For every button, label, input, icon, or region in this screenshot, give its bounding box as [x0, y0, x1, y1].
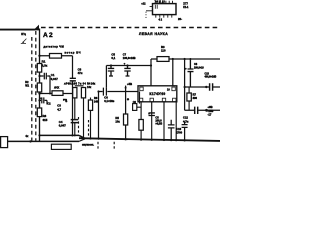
svg-text:0,047: 0,047 [51, 77, 58, 81]
svg-text:20-: 20- [178, 17, 182, 21]
svg-text:100,0×16: 100,0×16 [194, 66, 204, 69]
svg-text:К1-1: К1-1 [183, 6, 189, 9]
svg-text:3,3к: 3,3к [42, 63, 48, 67]
svg-text:-17: -17 [208, 112, 212, 116]
svg-text:110: 110 [161, 48, 166, 52]
svg-text:С6: С6 [104, 95, 108, 99]
svg-text:ЛЕВАЯ НАУКА: ЛЕВАЯ НАУКА [139, 32, 168, 36]
svg-text:детектор ЧМ: детектор ЧМ [44, 45, 65, 49]
svg-text:лР6НА95 7н 04: лР6НА95 7н 04 [64, 82, 86, 85]
svg-text:А2: А2 [43, 32, 54, 39]
svg-text:100,0×16В: 100,0×16В [123, 56, 136, 60]
svg-text:АЧХ: АЧХ [54, 86, 59, 90]
svg-text:R7: R7 [193, 93, 197, 97]
svg-text:0,047: 0,047 [59, 124, 66, 128]
svg-text:потар ВЧ: потар ВЧ [65, 51, 82, 55]
svg-text:47н: 47н [78, 71, 83, 75]
svg-text:400,0×16Б: 400,0×16Б [205, 76, 217, 79]
svg-text:4,7: 4,7 [57, 108, 61, 112]
svg-text:звукосн.: звукосн. [82, 142, 94, 146]
svg-text:W1: W1 [25, 84, 29, 87]
svg-text:10к: 10к [115, 120, 120, 124]
svg-text:0,1×16в: 0,1×16в [104, 99, 114, 103]
svg-text:R6: R6 [94, 96, 98, 100]
svg-text:С10: С10 [176, 127, 181, 131]
svg-text:С12: С12 [183, 116, 188, 120]
svg-text:ХТ7: ХТ7 [183, 2, 188, 5]
svg-text:10к: 10к [87, 85, 92, 89]
svg-text:0,1: 0,1 [111, 56, 115, 60]
svg-text:+9В: +9В [208, 105, 213, 109]
svg-text:+: + [124, 62, 126, 66]
svg-text:2700: 2700 [176, 131, 182, 135]
svg-text:4 2: 4 2 [159, 18, 163, 21]
svg-text:4,7н: 4,7н [183, 119, 189, 123]
svg-text:С2: С2 [47, 101, 51, 105]
svg-text:240: 240 [94, 99, 99, 103]
svg-text:615: 615 [43, 118, 48, 122]
svg-text:-15В: -15В [208, 109, 214, 113]
svg-text:330: 330 [193, 96, 198, 100]
svg-text:×6,3В: ×6,3В [155, 123, 162, 126]
svg-text:КГц: КГц [21, 32, 26, 36]
svg-text:7 9 11 13: 7 9 11 13 [155, 0, 166, 3]
svg-text:К174УН9: К174УН9 [149, 92, 165, 96]
svg-text:R5: R5 [115, 116, 119, 120]
svg-text:+12: +12 [141, 3, 146, 6]
svg-text:+5В: +5В [127, 82, 132, 86]
